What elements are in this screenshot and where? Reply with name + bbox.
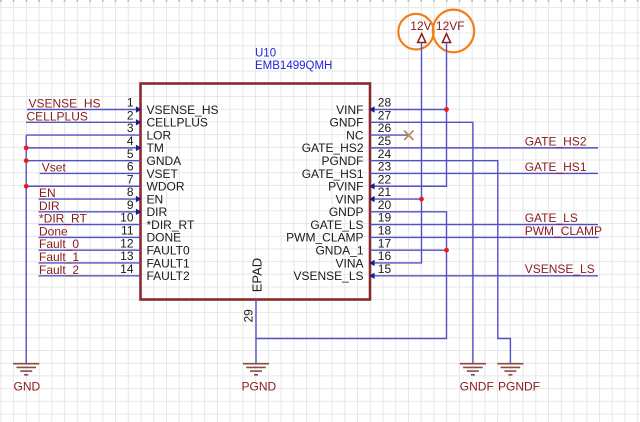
svg-text:PWM_CLAMP: PWM_CLAMP	[525, 224, 602, 238]
wire pin 21 VINP	[370, 198, 422, 200]
ground PGNDF	[497, 364, 523, 375]
svg-text:CELLPLUS: CELLPLUS	[27, 109, 88, 123]
junction 12V rail pin21	[419, 197, 424, 202]
wire pin 6 VSET	[40, 172, 141, 174]
svg-text:14: 14	[120, 262, 134, 276]
pin 2 input arrow	[136, 119, 142, 125]
wire 12VF rail	[370, 43, 447, 187]
wire pin 13 FAULT1	[39, 262, 141, 264]
highlight circle around 12V	[398, 14, 433, 50]
svg-text:15: 15	[378, 262, 392, 276]
svg-text:EMB1499QMH: EMB1499QMH	[255, 60, 332, 72]
svg-text:VSENSE_LS: VSENSE_LS	[293, 269, 363, 283]
pin 28 input arrow	[369, 106, 375, 112]
svg-text:GATE_HS1: GATE_HS1	[525, 160, 587, 174]
pin 21 input arrow	[369, 196, 375, 202]
power port 12VF	[436, 19, 465, 42]
svg-text:EPAD: EPAD	[249, 258, 264, 292]
svg-text:U10: U10	[255, 48, 276, 60]
wire pin 10 *DIR_RT	[39, 224, 141, 226]
no-connect X on pin 26	[404, 131, 413, 141]
ground GNDF	[460, 364, 486, 375]
svg-text:VSENSE_LS: VSENSE_LS	[525, 262, 595, 276]
wire pin 11 DONE	[39, 236, 141, 238]
pin 4 input arrow	[136, 145, 142, 151]
wire pin 7 WDOR	[26, 185, 140, 187]
wire pin 5 GNDA	[26, 160, 140, 162]
wire pin 3 LOR	[26, 134, 140, 136]
wire pin 2 CELLPLUS	[26, 121, 141, 123]
wire pin 9 DIR	[39, 211, 141, 213]
svg-text:GATE_HS2: GATE_HS2	[525, 134, 587, 148]
wire pin 1 VSENSE_HS	[27, 109, 141, 111]
svg-text:PGNDF: PGNDF	[498, 379, 540, 393]
wire pin 14 FAULT2	[39, 275, 141, 277]
svg-text:GNDF: GNDF	[460, 379, 494, 393]
wire pin 12 FAULT0	[39, 249, 141, 251]
wire pin 26 NC stub	[370, 134, 408, 136]
wire 12V rail	[370, 43, 422, 263]
wire pin 23 GATE_HS1	[370, 172, 598, 174]
junction GNDP bus pin17	[444, 248, 449, 253]
wire GND vertical bus	[25, 135, 27, 364]
wire pin 27 GNDF to ground	[370, 122, 473, 363]
ground GND	[13, 364, 39, 375]
svg-text:12V: 12V	[410, 19, 431, 33]
wire pin 20 GNDP bus	[256, 212, 447, 339]
svg-text:Fault_2: Fault_2	[39, 263, 79, 277]
pin 22 input arrow	[369, 183, 375, 189]
svg-text:12VF: 12VF	[436, 19, 465, 33]
wire pin 17 GNDA_1	[370, 249, 447, 251]
svg-text:Vset: Vset	[42, 160, 67, 174]
junction GND bus pin4	[24, 145, 29, 150]
svg-text:GND: GND	[14, 379, 41, 393]
power port 12V	[410, 19, 431, 42]
wire pin 29 EPAD to ground	[255, 300, 257, 364]
wire pin 24 PGNDF to ground	[370, 161, 510, 364]
wire pin 8 EN	[39, 198, 141, 200]
junction GND bus pin5	[24, 158, 29, 163]
junction GND bus pin7	[24, 184, 29, 189]
junction 12VF rail pin28	[444, 107, 449, 112]
IC U10 EMB1499QMH body	[141, 84, 371, 300]
wire pin 15 VSENSE_LS	[370, 275, 598, 277]
pin 8 input arrow	[136, 196, 142, 202]
pin 1 input arrow	[136, 106, 142, 112]
pin 9 input arrow	[136, 209, 142, 215]
highlight circle around 12VF	[433, 10, 474, 53]
svg-text:PGND: PGND	[242, 379, 277, 393]
pin 15 input arrow	[369, 273, 375, 279]
wire pin 25 GATE_HS2	[370, 147, 598, 149]
wire pin 19 GATE_LS	[370, 224, 598, 226]
wire pin 28 VINF	[370, 109, 447, 111]
ground PGND	[243, 364, 269, 375]
wire pin 18 PWM_CLAMP	[370, 236, 599, 238]
pin 16 input arrow	[369, 260, 375, 266]
svg-text:29: 29	[241, 309, 255, 323]
wire pin 4 TM	[26, 147, 140, 149]
svg-text:FAULT2: FAULT2	[147, 269, 190, 283]
